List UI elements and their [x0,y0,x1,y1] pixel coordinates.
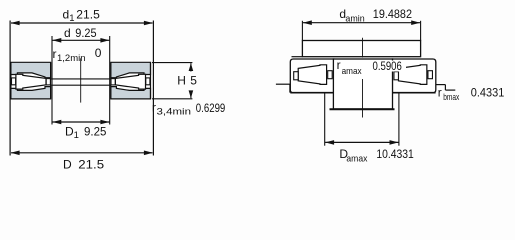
dimension D_amax [325,141,398,143]
extension line d/D1 right [109,36,111,125]
bore band lines [51,78,111,80]
ext line above bar left [301,21,303,41]
svg-text:amin: amin [345,14,364,25]
svg-text:amax: amax [346,153,367,164]
roller [398,65,426,85]
H dimension [152,62,192,64]
dimension D_amax ext lines [324,93,326,146]
roller [298,65,326,85]
envelope right block [392,59,435,93]
dimension d1 [11,22,153,24]
roller left [16,74,46,89]
label r_amax 0.5906 [372,61,407,72]
shaft bar [302,41,420,57]
svg-text:H: H [177,74,186,88]
extension line d/D1 left [51,36,53,125]
center line right figure [362,38,364,58]
shaft lip line [292,56,303,58]
block edges right [150,62,152,99]
svg-text:9.25: 9.25 [75,26,97,40]
housing step left [276,83,290,85]
cage stub inner [328,71,333,79]
top washer right [111,62,151,77]
roller assembly left (right figure) [294,65,333,85]
svg-text:r: r [152,101,156,115]
svg-text:3,4min: 3,4min [157,106,192,117]
svg-text:bmax: bmax [443,92,459,103]
svg-text:r: r [438,85,442,99]
block edges left [10,62,12,99]
housing step right [436,84,446,86]
top washer left [11,62,51,77]
svg-text:D: D [63,157,72,171]
extension line left (d1/D) [9,21,11,156]
svg-text:0.4331: 0.4331 [471,85,505,99]
right block (mirror of left about x=80.7) [111,62,151,99]
svg-text:21.5: 21.5 [78,157,104,171]
svg-text:5: 5 [190,74,197,88]
center line left figure [80,58,82,102]
svg-text:21.5: 21.5 [76,8,100,22]
cage stub inner [428,71,433,79]
central block [333,59,392,109]
extension line right (d1/D) [152,21,154,156]
cage stub inner right [111,79,115,85]
svg-text:D1: D1 [65,124,79,141]
cage stub outer left [12,78,16,85]
envelope left block [290,59,333,93]
left block washers [11,62,51,99]
roller assembly right (right figure) [394,65,433,85]
central block bottom heavy line [330,108,395,110]
cage stub outer right [146,78,150,85]
cage stub outer [294,72,299,80]
dimension D1 [52,121,109,123]
bottom washer left [11,87,51,99]
svg-text:amax: amax [342,66,362,77]
roller right [115,74,145,89]
svg-text:0.6299: 0.6299 [196,101,226,115]
svg-text:0: 0 [95,46,102,60]
housing seat line left [290,92,333,94]
ext line above bar right [420,21,422,41]
svg-text:10.4331: 10.4331 [376,147,414,161]
dimension D [11,152,153,154]
svg-text:r: r [53,47,57,61]
dimension d_amin [303,22,420,24]
cage stub inner left [46,79,50,85]
svg-text:0.5906: 0.5906 [373,59,403,73]
svg-text:r: r [337,58,341,72]
svg-text:9.25: 9.25 [84,124,107,138]
dimension d [52,39,109,41]
bottom washer right [111,87,151,99]
svg-text:d1: d1 [63,8,75,25]
svg-text:1,2min: 1,2min [57,53,86,64]
housing seat line right [393,92,436,94]
cage stub outer [394,72,399,80]
svg-text:19.4882: 19.4882 [373,7,412,21]
svg-text:d: d [64,26,71,40]
